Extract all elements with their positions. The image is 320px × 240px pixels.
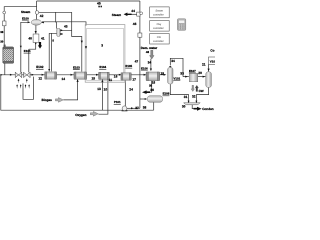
svg-text:34: 34 xyxy=(171,59,175,63)
svg-text:42: 42 xyxy=(40,14,44,18)
reformer furnace box inner xyxy=(87,28,124,80)
svg-text:20: 20 xyxy=(198,71,202,75)
svg-text:E104: E104 xyxy=(99,65,106,69)
svg-text:21: 21 xyxy=(202,62,206,66)
wire V102 drain to mixer xyxy=(196,88,208,103)
svg-text:Oxy: Oxy xyxy=(157,23,162,26)
svg-text:E101: E101 xyxy=(24,49,31,53)
svg-text:16: 16 xyxy=(114,75,118,79)
fat arrow dem water xyxy=(150,50,155,59)
reformer furnace box outer xyxy=(85,25,125,83)
svg-text:44: 44 xyxy=(131,9,135,13)
svg-text:14: 14 xyxy=(62,77,66,81)
svg-text:17: 17 xyxy=(132,78,136,82)
wire branch x72 to E103 top xyxy=(72,12,82,71)
wire valve43 elbow to E102 top xyxy=(49,33,57,71)
tiny arrows under valves xyxy=(16,84,30,89)
svg-text:Biogas: Biogas xyxy=(42,98,53,102)
mixer ellipse xyxy=(31,19,41,25)
wire main row line xyxy=(1,74,164,76)
svg-text:Co: Co xyxy=(210,48,214,52)
wire valve43 feed xyxy=(56,22,58,29)
controller box FW xyxy=(150,34,170,45)
wire E101 line xyxy=(20,45,22,72)
wire E105 bottom to pump xyxy=(124,81,126,107)
svg-text:Steam: Steam xyxy=(156,10,164,13)
wire branch x55.7 xyxy=(55,12,57,22)
wire valve43 outlet xyxy=(60,30,71,34)
svg-text:controller: controller xyxy=(153,27,164,30)
drum V103 xyxy=(147,92,169,103)
wire mixer outlet to tee40 xyxy=(35,25,37,34)
calculator icon xyxy=(177,19,185,31)
arrow into mixer left xyxy=(28,21,31,23)
wire valve under-recycle U xyxy=(23,77,34,100)
svg-text:48: 48 xyxy=(146,50,150,54)
svg-text:Steam: Steam xyxy=(112,13,122,17)
HX E106 xyxy=(141,67,160,81)
fat arrow biogas xyxy=(55,98,63,103)
svg-text:13: 13 xyxy=(97,87,101,91)
svg-text:33: 33 xyxy=(180,72,184,76)
recycle marks under 45 xyxy=(98,6,100,8)
HX E104 xyxy=(99,65,110,79)
svg-text:11: 11 xyxy=(109,78,113,82)
wire oxygen line to E104 bottom xyxy=(98,79,108,114)
wire steam valve line x139.9 xyxy=(139,1,141,108)
wire drum bottom drain xyxy=(153,102,155,110)
X valve 1 xyxy=(15,72,22,82)
box top-right clipped xyxy=(209,57,217,65)
steam-in fat arrow xyxy=(124,13,132,17)
svg-text:32: 32 xyxy=(192,95,196,99)
svg-text:36: 36 xyxy=(150,88,154,92)
wire V101 drain to mixer xyxy=(170,85,188,103)
arrow after valve2 xyxy=(32,74,35,76)
svg-text:24: 24 xyxy=(129,88,133,92)
arrow down x49.2 into E102 xyxy=(48,69,50,71)
svg-text:E100: E100 xyxy=(22,17,29,21)
svg-text:controller: controller xyxy=(153,14,164,17)
wire condensate stem xyxy=(192,105,193,109)
svg-text:12: 12 xyxy=(38,77,42,81)
wire V102 riser 21 xyxy=(208,64,210,71)
svg-text:30: 30 xyxy=(182,105,186,109)
arrow into E104 xyxy=(96,74,99,76)
svg-text:10: 10 xyxy=(104,87,108,91)
svg-text:V101: V101 xyxy=(174,77,181,81)
svg-text:FW: FW xyxy=(157,36,162,39)
svg-text:46: 46 xyxy=(133,22,137,26)
arrow down on E101 line xyxy=(20,46,22,49)
arrow into E102 xyxy=(42,74,45,76)
condensate mixer bar xyxy=(184,103,201,105)
arrow into E106 xyxy=(144,74,147,76)
arrow mixer outlet down xyxy=(35,31,37,34)
arrow mixer in right xyxy=(195,101,197,103)
wire dem water to E106 xyxy=(150,59,152,71)
wire top rail 45 xyxy=(37,0,140,2)
wire mixer inlet right xyxy=(42,22,86,26)
svg-text:47: 47 xyxy=(135,60,139,64)
svg-text:Conden: Conden xyxy=(202,107,214,111)
arrow row far left xyxy=(0,74,3,76)
vessel V101 xyxy=(168,66,173,85)
svg-text:E105: E105 xyxy=(125,64,132,68)
fat arrow 40 down xyxy=(38,42,42,49)
wire top-left recycle xyxy=(4,7,36,47)
svg-text:P101: P101 xyxy=(114,100,121,104)
arrow pump outlet xyxy=(131,107,134,109)
HX E103 xyxy=(73,65,87,79)
wire circle outlet right xyxy=(38,11,71,13)
svg-text:37: 37 xyxy=(135,106,139,110)
wire reactor drain xyxy=(4,63,6,74)
arrow up into E104 bottom xyxy=(101,80,103,83)
arrow valve43 out bottom xyxy=(61,33,64,35)
wire E107 to V102 xyxy=(198,76,206,78)
svg-text:38: 38 xyxy=(143,105,147,109)
arrow valve43 out top xyxy=(61,29,64,31)
tee box 40/41 xyxy=(33,34,39,43)
HX E105 xyxy=(121,64,133,80)
wire V101 overhead arch xyxy=(170,58,183,76)
wire drum feed branch xyxy=(140,98,145,100)
arrow row start xyxy=(10,74,13,76)
svg-text:Steam: Steam xyxy=(21,10,31,14)
svg-text:Dem. water: Dem. water xyxy=(141,46,158,50)
arrow down on furnace left edge xyxy=(85,46,87,49)
wire mixer left inlet from valve1 xyxy=(21,22,28,72)
box valve on oxygen line xyxy=(3,21,6,26)
svg-text:E108: E108 xyxy=(163,92,170,96)
svg-text:35: 35 xyxy=(149,83,153,87)
arrow into drum xyxy=(145,98,148,100)
valve capsule 43 xyxy=(57,28,61,36)
X valve 2 xyxy=(24,72,31,82)
steam circle valve xyxy=(35,11,39,15)
arrow mixer in left xyxy=(188,101,190,103)
wire pump outlet xyxy=(127,107,140,109)
controller box Oxy xyxy=(150,21,170,32)
wire arch to E107 xyxy=(183,76,189,78)
svg-text:31: 31 xyxy=(184,95,188,99)
controller box Steam xyxy=(150,7,170,18)
valve square 46 xyxy=(138,33,142,37)
arrow down into V102 xyxy=(208,69,210,72)
svg-text:controller: controller xyxy=(153,40,164,43)
fat arrow oxygen xyxy=(90,111,98,116)
svg-text:38: 38 xyxy=(0,30,4,34)
wire E104 bottom to long line xyxy=(101,79,103,110)
arrow into V101 xyxy=(164,74,167,76)
svg-text:E102: E102 xyxy=(36,65,44,69)
svg-text:CW: CW xyxy=(199,89,204,93)
fat arrow 36 xyxy=(142,90,150,94)
arrow into E106 top xyxy=(150,69,152,72)
wire E106 bottom to arrow36 xyxy=(150,81,152,92)
svg-text:39: 39 xyxy=(0,40,4,44)
svg-text:3: 3 xyxy=(101,43,103,47)
arrow down x81.8 xyxy=(81,41,83,44)
svg-text:18: 18 xyxy=(152,80,156,84)
arrow below tee40 xyxy=(35,43,37,45)
circle valve on oxygen line xyxy=(3,11,6,14)
reactor R101 xyxy=(3,45,14,64)
wire tee40 to valve2 xyxy=(29,43,36,73)
steam control valve xyxy=(137,12,140,16)
svg-text:E103: E103 xyxy=(73,65,80,69)
wire biogas line to E103 bottom xyxy=(63,79,77,100)
arrow into E103 xyxy=(71,74,74,76)
svg-text:E107: E107 xyxy=(189,69,196,73)
svg-text:40: 40 xyxy=(28,37,32,41)
arrow into E107 xyxy=(185,76,188,78)
fat arrow condensate xyxy=(194,107,202,111)
pump P101 xyxy=(114,100,128,111)
arrow into V101 top xyxy=(169,66,171,69)
vessel V102 xyxy=(206,72,212,88)
arrow up into E103 bottom xyxy=(77,79,79,82)
arrow into E105 xyxy=(119,74,122,76)
svg-text:Oxygen: Oxygen xyxy=(75,113,86,117)
svg-text:34: 34 xyxy=(148,60,152,64)
wire long bottom recycle xyxy=(1,75,154,110)
wire steam drop xyxy=(36,1,38,20)
wire steam-in arrow tail xyxy=(130,13,137,15)
svg-text:45: 45 xyxy=(97,1,101,5)
HX E102 xyxy=(36,65,56,79)
svg-text:15: 15 xyxy=(92,76,96,80)
svg-text:V10: V10 xyxy=(210,59,215,63)
arrow into V102 xyxy=(203,76,206,78)
svg-text:E106: E106 xyxy=(141,67,148,71)
svg-text:41: 41 xyxy=(41,37,45,41)
cooler E107 xyxy=(189,69,198,82)
svg-text:43: 43 xyxy=(64,25,68,29)
arrow into mixer right xyxy=(41,21,44,23)
CW arrows xyxy=(191,85,198,91)
